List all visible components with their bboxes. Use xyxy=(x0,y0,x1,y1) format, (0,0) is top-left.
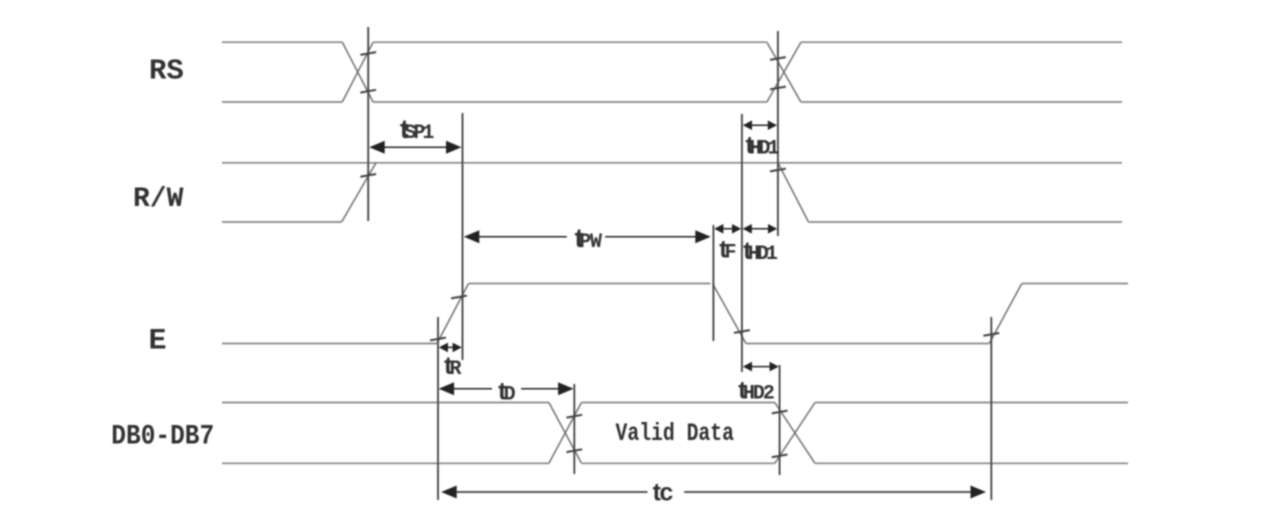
svg-text:D: D xyxy=(504,383,516,406)
tick R/W rising edge xyxy=(360,174,376,177)
E rising edge 2 diagonal xyxy=(989,284,1022,344)
E low rail segment 1 xyxy=(222,343,437,345)
RS crossover X1 rising diagonal xyxy=(342,42,373,102)
dimension arrow tPW xyxy=(466,236,567,238)
tick DB X3 lower xyxy=(566,449,582,452)
svg-text:HD2: HD2 xyxy=(743,383,774,406)
svg-text:DB0-DB7: DB0-DB7 xyxy=(111,420,214,452)
DB low rail segment 1 xyxy=(222,462,549,464)
DB high rail segment 2 (valid data top) xyxy=(582,402,775,404)
RS crossover X1 falling diagonal xyxy=(342,42,373,102)
tick RS X1 lower xyxy=(360,90,376,93)
RS low rail segment 1 xyxy=(222,101,342,103)
vertical dimension line V4 (E fall end) xyxy=(741,114,743,372)
svg-text:Valid Data: Valid Data xyxy=(616,419,734,448)
vertical dimension line V5 (RS transition 2) xyxy=(777,31,779,236)
svg-text:RS: RS xyxy=(149,55,184,88)
svg-text:PW: PW xyxy=(579,231,602,254)
vertical dimension line V8 (cycle start) xyxy=(437,317,439,500)
svg-text:HD1: HD1 xyxy=(748,243,778,266)
dimension arrow tHD1 upper xyxy=(745,124,775,126)
tick RS X2 upper xyxy=(770,57,786,60)
DB crossover X4 falling diagonal xyxy=(775,403,815,464)
svg-text:R: R xyxy=(450,358,462,381)
vertical dimension line V9 (cycle end) xyxy=(990,317,992,500)
R/W falling edge diagonal xyxy=(778,163,809,222)
dimension arrow tHD1 lower xyxy=(745,228,776,230)
tick DB X4 lower xyxy=(772,455,788,458)
dimension arrow tSP1 xyxy=(371,146,459,148)
E high rail segment 2 xyxy=(1022,283,1128,285)
DB crossover X3 rising diagonal xyxy=(549,403,582,464)
tick R/W falling edge xyxy=(770,169,786,172)
svg-text:E: E xyxy=(149,324,167,358)
DB high rail segment 1 xyxy=(222,402,549,404)
RS crossover X2 rising diagonal xyxy=(767,42,801,102)
dimension arrow tc xyxy=(443,491,647,493)
tick DB X4 upper xyxy=(772,411,788,414)
vertical dimension line V1 (RS transition 1) xyxy=(367,27,369,221)
RS low rail segment 2 xyxy=(373,101,767,103)
R/W low rail segment 2 xyxy=(809,221,1123,223)
vertical dimension line V7 (DB valid) xyxy=(573,384,575,474)
DB low rail segment 3 xyxy=(815,462,1128,464)
R/W high rail xyxy=(222,162,1122,164)
dimension arrow tHD2 xyxy=(745,366,777,368)
DB crossover X3 falling diagonal xyxy=(549,403,582,464)
E rising edge 1 diagonal xyxy=(437,284,469,344)
RS high rail segment 3 xyxy=(801,41,1122,43)
tick E cycle start xyxy=(430,338,446,341)
svg-text:tc: tc xyxy=(653,479,674,507)
DB crossover X4 rising diagonal xyxy=(775,403,815,464)
tick RS X1 upper xyxy=(360,52,376,55)
DB high rail segment 3 xyxy=(815,402,1128,404)
RS crossover X2 falling diagonal xyxy=(767,42,801,102)
vertical dimension line V6 (DB hold) xyxy=(779,365,781,475)
svg-text:HD1: HD1 xyxy=(750,137,780,160)
svg-text:R/W: R/W xyxy=(133,184,184,215)
tick E rising edge 2 xyxy=(983,333,999,336)
tick E falling edge xyxy=(734,330,750,333)
tick E rising edge 1 xyxy=(451,296,467,299)
dimension arrow tR xyxy=(441,346,460,348)
svg-text:SP1: SP1 xyxy=(404,122,434,145)
DB low rail segment 2 (valid data bottom) xyxy=(582,462,775,464)
tick DB X3 upper xyxy=(566,415,582,418)
E falling edge diagonal xyxy=(713,284,747,344)
RS low rail segment 3 xyxy=(801,101,1122,103)
RS high rail segment 2 xyxy=(373,41,767,43)
R/W low rail segment 1 xyxy=(222,221,342,223)
vertical dimension line V3 (E fall start) xyxy=(712,225,714,341)
dimension arrow tF xyxy=(716,228,739,230)
E low rail segment 2 xyxy=(746,343,989,345)
dimension arrow tD xyxy=(441,388,492,390)
tick RS X2 lower xyxy=(770,87,786,90)
RS high rail segment 1 xyxy=(222,41,342,43)
vertical dimension line V2 (E rise 1) xyxy=(462,113,464,360)
svg-text:F: F xyxy=(725,242,737,265)
E high rail segment 1 xyxy=(469,283,711,285)
R/W rising edge diagonal xyxy=(342,163,376,222)
